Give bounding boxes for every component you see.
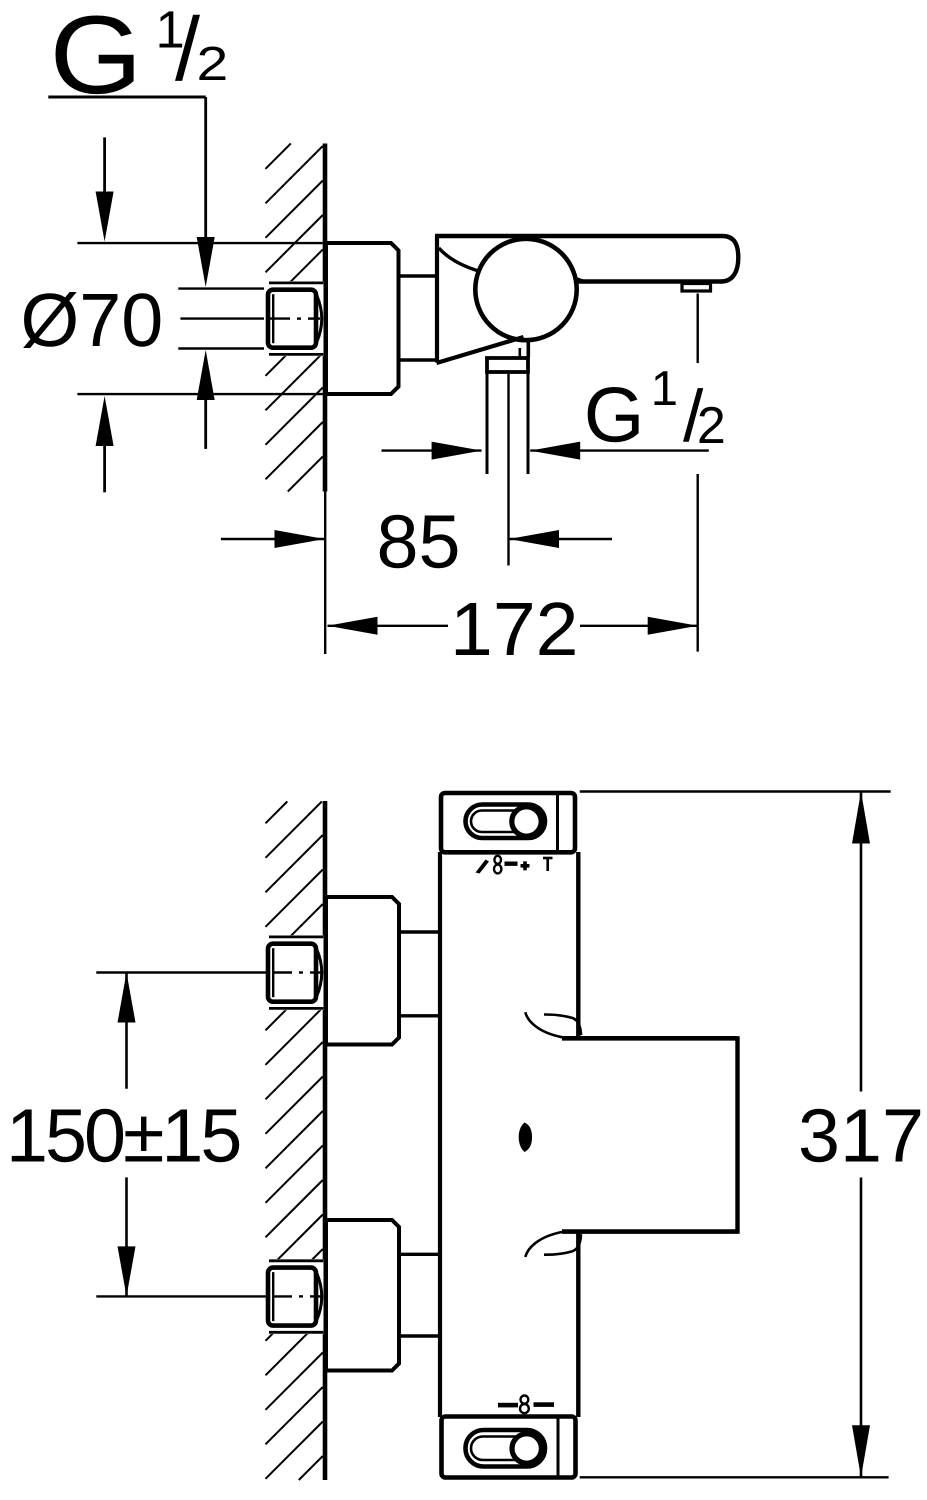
text G 1/2 (at hose connection)	[584, 362, 726, 459]
top control: outer pill	[466, 805, 546, 839]
body bottom diagonal edge	[437, 337, 524, 363]
union nut upper (bottom view)	[265, 935, 324, 1010]
upper escutcheon flange	[326, 897, 399, 1045]
svg-text:2: 2	[697, 397, 726, 455]
lever/body top edge	[435, 234, 724, 238]
bottom control: knob circle	[512, 1434, 541, 1463]
bottom cap of body	[442, 1417, 576, 1478]
crosspiece (tub spout block)	[562, 1036, 738, 1041]
svg-text:G: G	[50, 0, 143, 117]
svg-text:150±15: 150±15	[6, 1094, 239, 1178]
text G 1/2 (top left)	[50, 0, 229, 117]
85 dimension, right segment with arrow to pipe centre	[509, 538, 612, 540]
aerator extension line (two segments interrupted by text)	[697, 294, 699, 364]
upper neck	[399, 930, 441, 933]
wall hatching (bottom view)	[266, 802, 323, 1481]
spout bottom edge	[575, 279, 722, 283]
spout rounded end	[721, 236, 738, 282]
escutcheon flange (top view)	[326, 243, 399, 394]
wall face line (top view)	[323, 144, 328, 492]
mixer body left edge	[435, 236, 439, 363]
shower hose pipe lines	[486, 374, 489, 475]
317 dimension extension lines	[580, 790, 891, 792]
union nut on wall (top view)	[265, 281, 324, 356]
wall hatching (top view)	[266, 144, 323, 492]
lower leaf curve	[525, 1232, 562, 1257]
stub between ball and union nut	[526, 339, 530, 357]
nut extension lines	[178, 287, 264, 289]
svg-text:1: 1	[651, 362, 678, 416]
upper centre line / 150 extension	[96, 971, 266, 973]
svg-text:85: 85	[377, 500, 461, 584]
svg-text:317: 317	[798, 1094, 924, 1178]
svg-text:Ø70: Ø70	[21, 278, 164, 362]
union nut below body	[487, 358, 528, 372]
pipe centre line	[507, 374, 509, 566]
bottom control: inner pill	[471, 1437, 533, 1461]
temperature icons under top cap	[476, 856, 553, 874]
down arrow to flange top	[103, 137, 106, 200]
85 dimension, left segment with arrow to wall	[221, 538, 325, 540]
flow icon above bottom cap	[498, 1396, 554, 1414]
bottom control: outer pill	[466, 1430, 546, 1467]
lower escutcheon flange	[326, 1220, 399, 1371]
wall extension line down to 172 dimension	[324, 492, 326, 655]
union nut lower (bottom view)	[265, 1259, 324, 1334]
spout outlet blob	[519, 1123, 532, 1153]
neck between flange and body	[399, 274, 439, 277]
up arrow to nut bottom	[197, 350, 215, 400]
172 dimension right segment with outward arrow	[580, 625, 698, 627]
thermostat body sides	[438, 852, 442, 1417]
lower centre line / 150 extension	[96, 1295, 266, 1297]
G1/2 dimension line left part with right-pointing arrow	[382, 449, 482, 451]
cartridge ball circle	[475, 239, 576, 340]
172 dimension left segment with outward arrow	[328, 625, 449, 627]
upper leaf curve	[525, 1012, 562, 1037]
lower neck	[399, 1253, 441, 1256]
150±15 dimension	[125, 973, 128, 1089]
top control: inner pill	[471, 811, 533, 833]
G1/2 dimension line right part with left-pointing arrow	[530, 449, 709, 451]
svg-text:2: 2	[197, 38, 229, 91]
wall face line (bottom view)	[323, 801, 328, 1480]
Ø70 extension lines	[77, 242, 322, 244]
leader underline of G 1/2	[48, 96, 205, 99]
svg-text:G: G	[584, 371, 645, 459]
nut centre line (top view)	[180, 317, 264, 319]
317 dimension line with arrows	[860, 792, 863, 1092]
aerator under spout	[682, 284, 711, 292]
leader vertical with down arrow to nut top	[204, 97, 207, 250]
top control: knob circle	[512, 807, 541, 836]
up arrow to flange bottom	[96, 396, 114, 446]
kink where spout meets cartridge ball	[573, 277, 588, 283]
svg-text:172: 172	[450, 587, 579, 671]
top cap of body	[441, 793, 575, 852]
saddle curve between body edge and ball	[439, 248, 480, 272]
